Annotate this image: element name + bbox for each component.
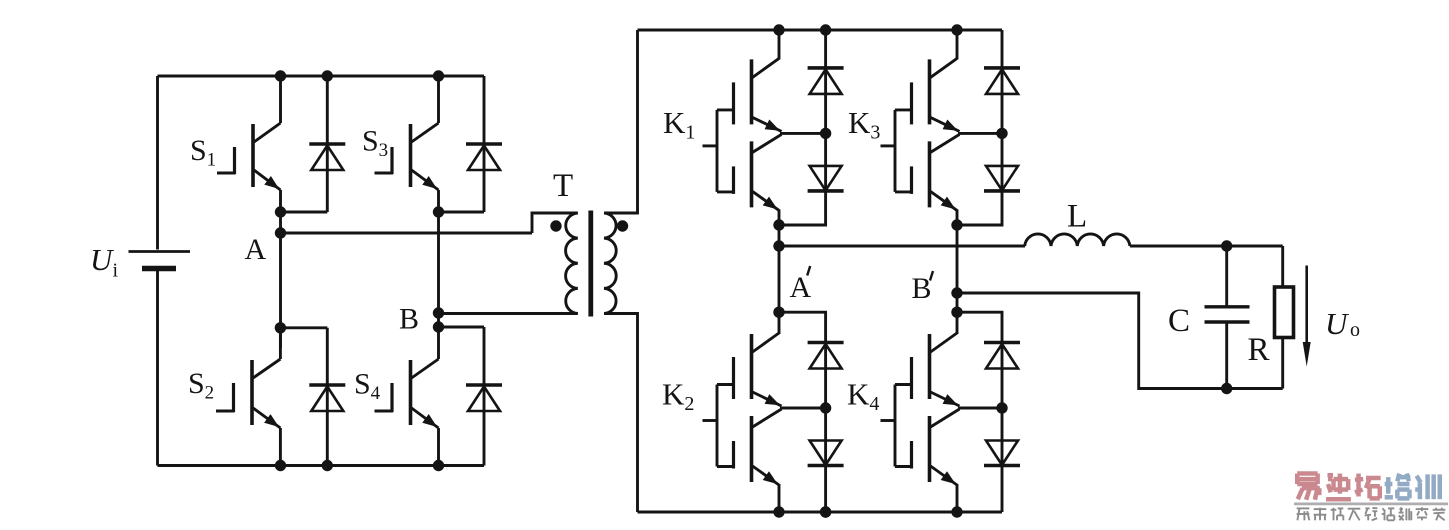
svg-text:S: S [188, 367, 205, 400]
svg-text:4: 4 [869, 393, 879, 415]
svg-text:o: o [1350, 319, 1360, 341]
svg-text:3: 3 [870, 122, 880, 144]
svg-text:T: T [553, 168, 573, 204]
svg-text:S: S [362, 125, 379, 158]
svg-text:S: S [190, 134, 207, 167]
svg-text:R: R [1248, 332, 1270, 368]
svg-text:A: A [245, 233, 267, 266]
svg-text:L: L [1067, 199, 1087, 235]
svg-text:S: S [354, 368, 371, 401]
svg-text:i: i [113, 260, 119, 282]
svg-text:K: K [663, 105, 686, 140]
svg-text:2: 2 [205, 383, 215, 404]
svg-text:B: B [912, 272, 932, 305]
svg-text:U: U [90, 242, 115, 277]
svg-text:A: A [790, 271, 812, 304]
svg-text:3: 3 [379, 140, 389, 161]
svg-text:K: K [662, 377, 685, 412]
svg-text:K: K [848, 105, 871, 140]
svg-text:U: U [1325, 306, 1350, 341]
svg-text:2: 2 [684, 393, 694, 415]
svg-text:1: 1 [207, 150, 217, 171]
svg-text:K: K [847, 377, 870, 412]
svg-text:C: C [1168, 303, 1190, 339]
svg-text:1: 1 [685, 122, 695, 144]
svg-text:4: 4 [371, 383, 381, 404]
svg-text:B: B [399, 303, 419, 336]
